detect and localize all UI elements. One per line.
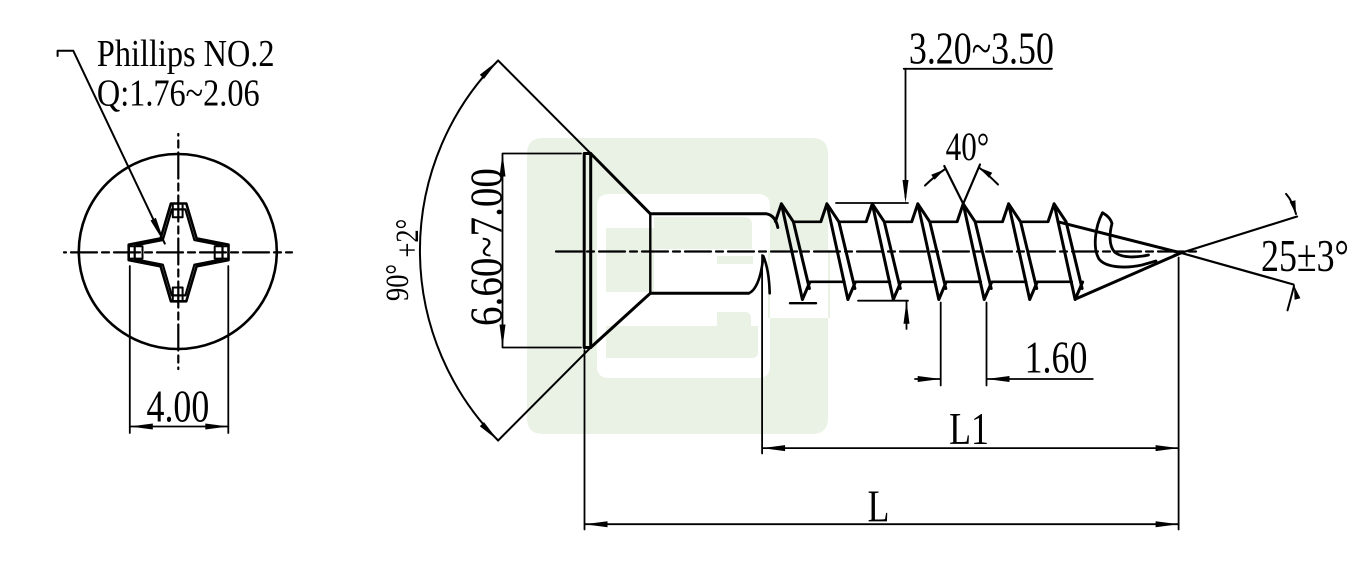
svg-text:L: L	[867, 480, 889, 531]
svg-text:25±3°: 25±3°	[1261, 230, 1349, 281]
svg-text:Q:1.76~2.06: Q:1.76~2.06	[97, 72, 260, 114]
svg-text:1.60: 1.60	[1025, 331, 1088, 382]
svg-text:4.00: 4.00	[147, 380, 210, 431]
svg-text:Phillips NO.2: Phillips NO.2	[97, 33, 275, 75]
svg-text:40°: 40°	[946, 124, 990, 169]
svg-text:L1: L1	[949, 403, 989, 454]
svg-text:3.20~3.50: 3.20~3.50	[909, 22, 1054, 73]
svg-text:6.60~7.00: 6.60~7.00	[462, 168, 513, 326]
